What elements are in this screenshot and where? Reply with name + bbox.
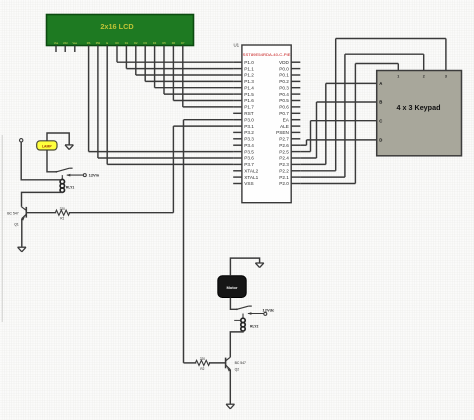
resistor R1 220	[26, 207, 173, 221]
svg-text:P1.0: P1.0	[244, 60, 254, 65]
svg-text:RLY2: RLY2	[250, 324, 258, 328]
svg-text:A: A	[379, 81, 382, 86]
svg-text:LAMP: LAMP	[42, 145, 52, 149]
svg-text:Q2: Q2	[235, 368, 240, 372]
wire Q2 emitter to ground	[229, 370, 231, 404]
svg-text:VSS: VSS	[244, 181, 253, 186]
svg-text:P0.3: P0.3	[279, 85, 289, 90]
svg-text:Q1: Q1	[14, 223, 19, 227]
wire net COL3 : keypad 3 to U1 P2.2	[300, 39, 446, 171]
svg-text:B: B	[379, 100, 382, 105]
svg-text:P1.1: P1.1	[244, 66, 254, 71]
svg-text:D6: D6	[172, 41, 176, 45]
wire net ROWD : keypad D to U1 P2.6	[300, 140, 376, 145]
wire net COL1 : keypad 1 to U1 P2.0	[300, 64, 398, 184]
svg-text:220: 220	[200, 357, 206, 361]
wire lamp bottom to relay switch pole	[47, 150, 56, 172]
svg-text:P3.6: P3.6	[244, 156, 254, 161]
svg-text:P2.5: P2.5	[279, 149, 289, 154]
wire net D0 : LCD D0 to U1 P1.0	[117, 46, 233, 63]
svg-text:P1.7: P1.7	[244, 105, 254, 110]
svg-text:P2.2: P2.2	[279, 169, 289, 174]
svg-text:RS: RS	[87, 41, 91, 45]
svg-text:P2.6: P2.6	[279, 143, 289, 148]
svg-text:P3.1: P3.1	[244, 124, 254, 129]
wire coil bottom to Q1 collector	[22, 192, 63, 207]
svg-text:3: 3	[445, 75, 447, 79]
svg-text:Vee: Vee	[73, 41, 78, 45]
wire lamp top to ground	[47, 133, 69, 145]
svg-text:R2: R2	[200, 367, 204, 371]
svg-text:U1: U1	[234, 43, 240, 48]
keypad KP1 4 x 3 Keypad	[377, 71, 462, 156]
svg-text:P1.2: P1.2	[244, 73, 254, 78]
LCD module LCD1 2x16 LCD	[47, 15, 194, 46]
svg-text:Vdd: Vdd	[63, 41, 68, 45]
ground near lamp	[65, 145, 73, 150]
svg-text:D3: D3	[144, 41, 148, 45]
svg-text:P0.2: P0.2	[279, 79, 289, 84]
svg-text:RLY1: RLY1	[66, 185, 74, 189]
svg-text:2x16 LCD: 2x16 LCD	[100, 22, 133, 31]
svg-text:P2.0: P2.0	[279, 181, 289, 186]
svg-text:RST: RST	[244, 111, 254, 116]
svg-text:Vss: Vss	[54, 41, 59, 45]
svg-text:PSEN: PSEN	[276, 130, 289, 135]
svg-text:BC 547: BC 547	[7, 212, 18, 216]
resistor R2 220	[184, 357, 226, 371]
svg-text:P0.7: P0.7	[279, 111, 289, 116]
svg-text:XTAL2: XTAL2	[244, 169, 258, 174]
wire motor top to ground	[230, 258, 259, 276]
svg-text:P1.3: P1.3	[244, 79, 254, 84]
svg-text:P0.0: P0.0	[279, 66, 289, 71]
svg-text:P2.3: P2.3	[279, 162, 289, 167]
LCD pin stubs Vss Vdd Vee	[56, 46, 75, 53]
svg-text:RW: RW	[96, 41, 101, 45]
microcontroller U1 SST89E54RDA-40-C-PIE	[234, 43, 292, 203]
wire net ROWB : keypad B to U1 P2.4	[300, 102, 376, 158]
svg-text:D5: D5	[162, 41, 166, 45]
svg-text:SST89E54RDA-40-C-PIE: SST89E54RDA-40-C-PIE	[243, 52, 291, 57]
svg-text:220: 220	[60, 207, 66, 211]
svg-text:EA: EA	[283, 117, 290, 122]
motor M1	[218, 276, 246, 298]
svg-text:D0: D0	[115, 41, 119, 45]
svg-text:4 x 3 Keypad: 4 x 3 Keypad	[397, 103, 441, 112]
svg-text:P2.4: P2.4	[279, 156, 289, 161]
wire net D7 : LCD D7 to U1 P1.7	[183, 46, 233, 107]
svg-text:P2.1: P2.1	[279, 175, 289, 180]
svg-text:P0.4: P0.4	[279, 92, 289, 97]
wire net E : LCD E to U1 P3.7	[107, 46, 233, 165]
svg-text:P0.1: P0.1	[279, 73, 289, 78]
power terminal 12Vin arrow for RLY1	[67, 172, 100, 177]
svg-text:P3.7: P3.7	[244, 162, 254, 167]
svg-text:ALE: ALE	[280, 124, 289, 129]
svg-text:R1: R1	[60, 217, 64, 221]
wire net ROWC : keypad C to U1 P2.5	[300, 121, 376, 152]
lamp LP1	[37, 141, 57, 150]
wire motor bottom to relay switch pole	[230, 298, 237, 310]
svg-text:Motor: Motor	[226, 285, 238, 290]
svg-text:D2: D2	[134, 41, 138, 45]
relay RLY1 coil	[60, 175, 74, 192]
svg-text:P1.5: P1.5	[244, 92, 254, 97]
wire coil bottom to Q2 collector	[230, 331, 243, 357]
wire net D6 : LCD D6 to U1 P1.6	[173, 46, 233, 101]
wire net COL2 : keypad 2 to U1 P2.1	[300, 54, 423, 177]
svg-text:BC 547: BC 547	[235, 361, 246, 365]
relay RLY1 switch blade	[56, 168, 73, 173]
svg-text:P0.5: P0.5	[279, 98, 289, 103]
svg-text:P3.4: P3.4	[244, 143, 254, 148]
wire net RW : LCD RW to U1 P3.6	[98, 46, 233, 159]
svg-text:D7: D7	[181, 41, 185, 45]
wire net D1 : LCD D1 to U1 P1.1	[126, 46, 233, 69]
relay RLY2 switch blade	[236, 306, 252, 310]
svg-text:VDD: VDD	[279, 60, 290, 65]
wire net D5 : LCD D5 to U1 P1.5	[164, 46, 233, 95]
power terminal 12Vdc arrow for RLY2	[248, 307, 275, 315]
ground below Q2	[226, 404, 234, 409]
svg-text:C: C	[379, 118, 382, 123]
wire U1 P3.0 to R2	[184, 120, 234, 363]
terminal node supply to RLY1	[20, 139, 23, 142]
wire U1 P3.1 to R1	[173, 126, 233, 213]
svg-text:E: E	[106, 41, 108, 45]
wire net D2 : LCD D2 to U1 P1.2	[136, 46, 233, 76]
wire net D3 : LCD D3 to U1 P1.3	[145, 46, 233, 82]
svg-text:XTAL1: XTAL1	[244, 175, 258, 180]
wire terminal to coil top	[21, 142, 61, 180]
svg-text:P3.0: P3.0	[244, 117, 254, 122]
svg-text:P1.4: P1.4	[244, 85, 254, 90]
svg-text:P3.3: P3.3	[244, 137, 254, 142]
svg-text:P3.5: P3.5	[244, 149, 254, 154]
transistor Q1 BC 547	[7, 207, 26, 227]
wire net D4 : LCD D4 to U1 P1.4	[155, 46, 234, 88]
U1 right pin stubs	[291, 62, 300, 183]
svg-text:12Vin: 12Vin	[89, 172, 100, 177]
svg-text:P1.6: P1.6	[244, 98, 254, 103]
svg-text:D1: D1	[125, 41, 129, 45]
svg-text:P2.7: P2.7	[279, 137, 289, 142]
sheet edge line	[1, 135, 3, 322]
svg-text:P0.6: P0.6	[279, 105, 289, 110]
svg-text:1: 1	[397, 75, 399, 79]
U1 left pin stubs	[233, 62, 242, 183]
transistor Q2 BC 547	[226, 357, 246, 371]
wire net ROWA : keypad A to U1 P2.3	[300, 83, 376, 164]
svg-text:D4: D4	[153, 41, 157, 45]
ground below Q1	[18, 247, 26, 252]
svg-text:12Vdc: 12Vdc	[263, 307, 276, 312]
svg-text:P3.2: P3.2	[244, 130, 254, 135]
relay RLY2 coil	[234, 314, 258, 332]
svg-text:2: 2	[423, 75, 425, 79]
ground near motor	[255, 263, 263, 268]
wire Q1 emitter to ground	[21, 219, 23, 247]
svg-text:D: D	[379, 138, 382, 143]
wire net RS : LCD RS to U1 P3.5	[89, 46, 234, 152]
